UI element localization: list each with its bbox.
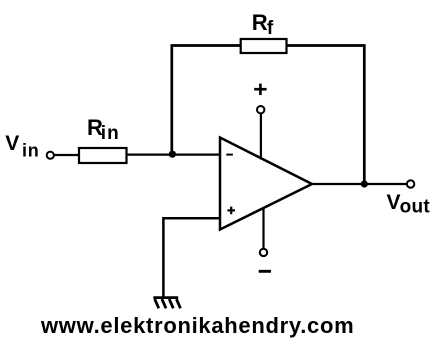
pin minus inverting input mark <box>226 154 233 156</box>
svg-text:in: in <box>22 140 40 160</box>
wire V+ supply to op-amp <box>260 114 262 160</box>
svg-text:out: out <box>400 197 431 218</box>
label Rin <box>87 115 120 144</box>
label Vin <box>5 132 39 160</box>
label Vout <box>387 191 431 218</box>
label website watermark <box>40 313 354 338</box>
svg-text:V: V <box>387 191 401 214</box>
pin plus non-inverting input mark <box>227 207 235 215</box>
label Rf <box>252 10 274 39</box>
svg-text:www.elektronikahendry.com: www.elektronikahendry.com <box>40 313 354 338</box>
ground <box>153 298 180 309</box>
wire non-inverting input to ground <box>163 218 220 298</box>
wire V- supply from op-amp <box>262 207 264 249</box>
pin V- supply terminal <box>260 249 267 256</box>
node Vin terminal <box>47 152 54 159</box>
wire Rin to op-amp inverting input <box>127 154 222 156</box>
svg-text:in: in <box>101 123 120 144</box>
resistor Rin <box>79 148 127 163</box>
node junction output <box>361 180 368 187</box>
pin V+ supply terminal <box>257 106 264 113</box>
node Vout terminal <box>407 180 414 187</box>
wire output <box>312 183 407 185</box>
label plus supply <box>254 84 266 95</box>
node junction input <box>169 151 176 158</box>
wire Vin to Rin <box>54 154 80 156</box>
resistor Rf <box>241 39 287 53</box>
svg-text:V: V <box>5 132 19 155</box>
svg-text:f: f <box>267 18 274 39</box>
wire feedback top <box>172 46 364 185</box>
op-amp U1 <box>220 138 312 230</box>
svg-text:R: R <box>252 10 268 35</box>
label minus supply <box>259 270 271 273</box>
